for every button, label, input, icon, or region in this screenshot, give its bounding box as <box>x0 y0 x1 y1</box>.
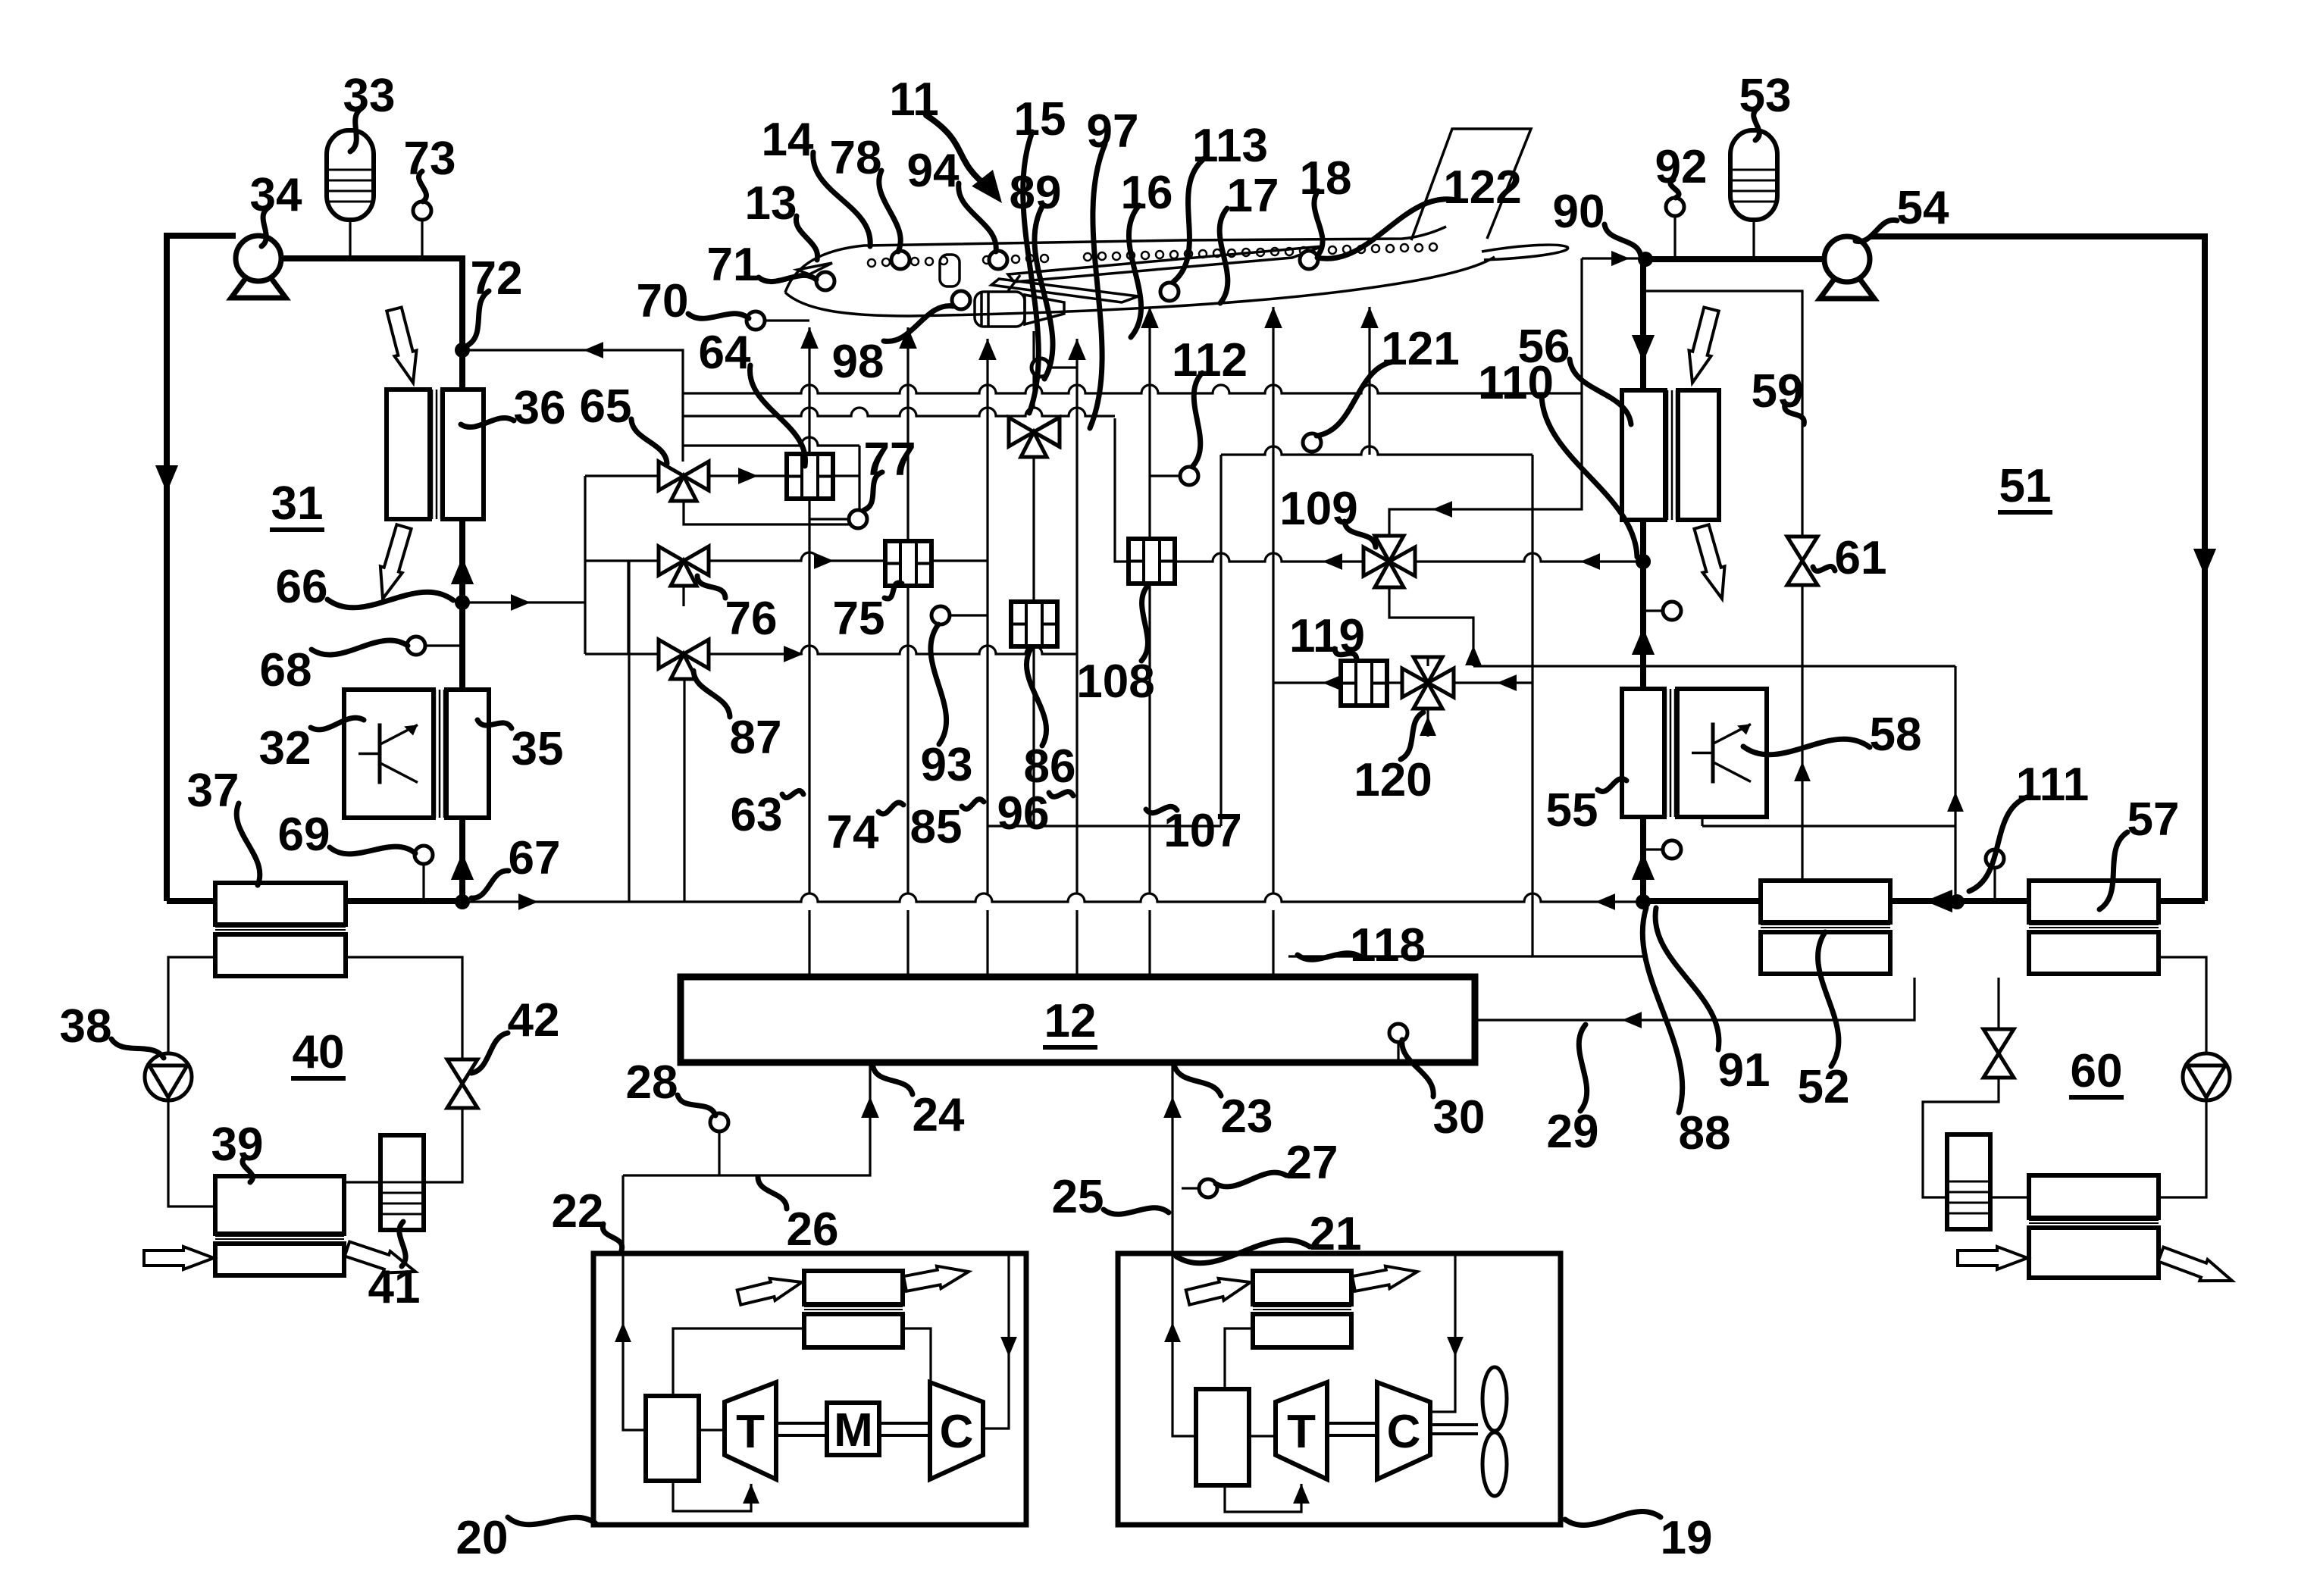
HX 55 with electric heater block 58 <box>1677 689 1767 817</box>
svg-text:32: 32 <box>259 722 312 775</box>
shaft T-C upper <box>1327 1422 1377 1425</box>
svg-text:14: 14 <box>762 114 814 166</box>
arrowhead of leader 11 <box>972 170 1002 203</box>
leader for label 67 <box>471 871 509 898</box>
leader for label 93 <box>931 624 947 744</box>
sensor 69 <box>415 846 433 864</box>
svg-text:28: 28 <box>626 1056 678 1109</box>
heat exchanger 36 <box>387 390 430 519</box>
flow arrow left into valve 120 <box>1497 674 1517 691</box>
line 107 lower <box>1148 910 1151 977</box>
turbine T in box 19 <box>1276 1382 1327 1479</box>
compressor 19 inlet from box top <box>1432 1253 1455 1412</box>
sensor 111 stem <box>1993 868 1996 901</box>
line 85 arrow into aircraft <box>978 339 997 360</box>
line from node 72 stepping down <box>462 350 683 462</box>
leader for label 28 <box>678 1095 715 1116</box>
accumulator 53 <box>1730 130 1777 220</box>
svg-text:26: 26 <box>787 1203 839 1256</box>
sensor 93 <box>931 606 950 624</box>
svg-text:120: 120 <box>1354 754 1432 806</box>
heat exchanger 64 <box>787 454 833 499</box>
svg-text:37: 37 <box>187 765 240 817</box>
leader for label 25 <box>1104 1208 1169 1215</box>
HX 119 to valve 120 <box>1387 681 1403 684</box>
pump 34 <box>231 277 286 298</box>
leader for label 77 <box>864 472 882 510</box>
leader for label 70 <box>688 314 749 319</box>
leader for label 23 <box>1175 1067 1221 1096</box>
sensor 93 stub <box>950 614 988 616</box>
svg-text:91: 91 <box>1718 1044 1770 1097</box>
leader for label 42 <box>471 1033 508 1073</box>
leader for label 122 <box>1317 199 1457 259</box>
flow arrow into node 90 <box>1611 251 1630 266</box>
flow arrow left toward node 72 <box>584 342 603 358</box>
controller box 12 <box>681 977 1475 1062</box>
three-way valve 76 <box>659 546 684 575</box>
vertical link line <box>858 446 860 524</box>
sensor 97 <box>1032 358 1050 377</box>
leader for label 64 <box>750 365 805 466</box>
thin line into node 90 <box>1582 257 1643 259</box>
leader for label 96 <box>1049 792 1073 797</box>
sensor 73 stem <box>421 220 423 258</box>
svg-text:108: 108 <box>1076 656 1154 708</box>
loop 31 left and top-left thick pipe <box>167 236 236 901</box>
svg-text:39: 39 <box>211 1119 264 1171</box>
flow arrow down into compressor 20 <box>1000 1337 1017 1357</box>
leader for label 69 <box>330 847 415 854</box>
svg-text:77: 77 <box>864 433 916 486</box>
line into HX 119 <box>1273 681 1341 684</box>
sensor 27 <box>1199 1179 1217 1197</box>
engine bleed line mid <box>1032 457 1035 602</box>
accumulator 41 <box>380 1135 424 1230</box>
leader for label 33 <box>350 108 362 152</box>
leader for label 90 <box>1605 224 1641 256</box>
svg-text:72: 72 <box>471 252 523 305</box>
svg-text:76: 76 <box>725 593 778 645</box>
loop 51 thick pipe block 55 to node 88 <box>1640 814 1646 902</box>
svg-text:63: 63 <box>731 789 783 841</box>
accumulator 33 stem <box>349 220 351 258</box>
svg-text:16: 16 <box>1121 167 1173 219</box>
leader for label 55 <box>1598 779 1626 792</box>
flow arrow right from node 66 <box>511 594 531 611</box>
shaft T-C lower <box>1327 1434 1377 1437</box>
expansion valve 61 <box>1787 537 1817 561</box>
svg-text:67: 67 <box>509 832 561 884</box>
sensor 68 stub <box>424 644 462 646</box>
sensor 92 <box>1666 198 1684 216</box>
wire combustor to turbine 19 <box>1249 1435 1276 1437</box>
line 110 horizontal <box>1473 665 1955 667</box>
sensor 77 stub <box>809 518 849 520</box>
leader for label 59 <box>1785 404 1805 424</box>
leader for label 53 <box>1754 108 1760 140</box>
svg-text:19: 19 <box>1661 1512 1713 1564</box>
line 107 upper <box>1148 307 1151 539</box>
rung to valve 65 <box>585 474 659 477</box>
line 63 lower <box>808 910 810 977</box>
svg-text:66: 66 <box>276 561 328 613</box>
svg-text:30: 30 <box>1433 1091 1486 1144</box>
loop 51 bottom thick pipe through HX 52 and HX 57 <box>1643 898 2205 904</box>
leader for label 120 <box>1401 712 1423 759</box>
leader for label 111 <box>1969 797 2027 891</box>
leader for label 63 <box>782 790 803 797</box>
svg-text:T: T <box>1287 1406 1316 1458</box>
vertical line x=2087 upper <box>1580 258 1583 393</box>
aircraft 11 silhouette <box>785 129 1568 327</box>
flow arrow down on loop 31 left pipe <box>155 465 178 493</box>
svg-text:34: 34 <box>250 169 302 221</box>
leader for label 91 <box>1655 908 1719 1050</box>
svg-text:29: 29 <box>1547 1106 1599 1158</box>
svg-text:69: 69 <box>278 809 330 861</box>
shaft T-M upper <box>776 1422 827 1425</box>
svg-text:53: 53 <box>1739 70 1792 122</box>
leader for label 17 <box>1219 208 1228 303</box>
flow arrow on valve 87 outlet <box>784 646 803 662</box>
expansion valve in loop 60 <box>1983 1029 2014 1053</box>
leader for label 113 <box>1173 158 1204 282</box>
svg-text:55: 55 <box>1546 784 1598 837</box>
leader for label 13 <box>796 216 817 260</box>
heat exchanger 57 <box>2029 881 2159 922</box>
svg-text:92: 92 <box>1655 141 1708 193</box>
mesh line from node 72 branch <box>683 385 1582 393</box>
line 22 into engine box 20 <box>623 1175 647 1430</box>
svg-text:T: T <box>736 1406 765 1458</box>
air arrow out of fan HX 19 <box>1352 1266 1417 1291</box>
shaft T-M lower <box>776 1434 827 1437</box>
leader for label 72 <box>468 291 489 345</box>
svg-text:70: 70 <box>637 275 689 327</box>
air arrow into loop 60 HX <box>1958 1247 2027 1269</box>
svg-text:111: 111 <box>2016 759 2090 811</box>
heat exchanger 56 <box>1622 390 1665 520</box>
sensor 121 stub <box>1310 452 1313 455</box>
ambient air arrow out of HX 36 <box>380 524 412 599</box>
HX 64 outlet <box>833 474 859 477</box>
line 29 from box 12 to HX 52 <box>1475 978 1914 1020</box>
leader for label 121 <box>1316 361 1395 436</box>
wire to turbine inlet <box>673 1481 751 1511</box>
heat exchanger 75 <box>885 541 931 586</box>
node 67 <box>455 894 470 909</box>
svg-text:17: 17 <box>1227 170 1279 222</box>
node 66 <box>455 595 470 610</box>
four-way valve 109 <box>1363 547 1389 576</box>
leader for label 119 <box>1335 649 1357 659</box>
leader for label 61 <box>1813 566 1835 571</box>
valve 87 bottom line to bus <box>683 679 685 901</box>
line 74 mid <box>906 584 909 893</box>
svg-text:25: 25 <box>1052 1171 1104 1223</box>
leader for label 86 <box>1026 649 1046 746</box>
line 24/26 from box 12 <box>623 1063 870 1175</box>
flow arrow up line 22 <box>615 1322 631 1342</box>
loop 60 pipe pump to HX 57 <box>2159 957 2206 1053</box>
svg-text:21: 21 <box>1310 1208 1362 1260</box>
leader for label 56 <box>1570 359 1631 424</box>
leader for label 24 <box>873 1067 913 1094</box>
sensor 73 <box>413 202 431 220</box>
loop 40 pipe to pump 38 <box>168 957 215 1053</box>
svg-text:98: 98 <box>832 336 884 388</box>
sensor 111 <box>1986 850 2004 868</box>
flow arrow into turbine 20 <box>743 1484 759 1504</box>
engine bleed line lower <box>1032 646 1035 826</box>
svg-text:74: 74 <box>827 806 879 859</box>
wire combustor to turbine <box>699 1429 725 1431</box>
compressor inlet from box top <box>983 1253 1009 1429</box>
mesh line upper 2 <box>683 408 1115 416</box>
svg-text:65: 65 <box>580 380 632 433</box>
svg-text:M: M <box>834 1404 873 1457</box>
mesh line 112/121 horizontal <box>1221 446 1533 455</box>
valve 76 outlet to HX 75 <box>709 552 885 561</box>
line 63 arrow into aircraft <box>800 327 819 349</box>
leader for label 92 <box>1670 180 1679 198</box>
flow arrow 23 up into box 12 <box>1163 1097 1182 1118</box>
line 117 arrow into aircraft <box>1264 307 1282 328</box>
svg-text:38: 38 <box>60 1000 112 1053</box>
shaft M-C lower <box>879 1434 930 1437</box>
fan heat exchanger in box 19 <box>1253 1271 1351 1304</box>
line 118 horizontal <box>1288 955 1533 957</box>
sensor 97 stub <box>1050 366 1077 368</box>
air arrow out of loop 60 HX <box>2159 1247 2233 1281</box>
leader for label 88 <box>1642 908 1683 1113</box>
svg-text:13: 13 <box>745 177 797 230</box>
leader for label 98 <box>884 306 953 342</box>
valve 76 bottom stub <box>682 586 684 606</box>
sensor 112 <box>1180 467 1198 485</box>
leader for label 97 <box>1090 144 1105 428</box>
loop 40 pipe pump 38 to HX 39 <box>168 1100 215 1206</box>
svg-text:54: 54 <box>1897 182 1949 234</box>
mesh line lower right <box>1702 825 1955 827</box>
flow arrow left on bus <box>1595 893 1615 910</box>
leader for label 87 <box>693 671 730 717</box>
mesh line upper 3 <box>683 437 859 446</box>
leader for label 18 <box>1314 191 1323 254</box>
wire fan HX to compressor 20 <box>903 1328 931 1382</box>
three-way valve 87 <box>659 640 684 668</box>
line into HX 108 left <box>1115 418 1129 562</box>
flow arrow right on bus <box>518 893 538 910</box>
sensor 70 <box>747 311 765 330</box>
leader for label 54 <box>1855 220 1897 241</box>
sensor 78 on fuselage <box>891 251 909 269</box>
leader for label 15 <box>1023 132 1039 413</box>
sensor on loop 51 <box>1663 602 1681 620</box>
svg-text:31: 31 <box>271 477 324 530</box>
line through valve 109 to node <box>1173 553 1643 562</box>
loop 31 bottom thick pipe through HX 37 <box>167 898 462 904</box>
propeller <box>1482 1367 1507 1431</box>
engine bleed line upper <box>1032 331 1035 407</box>
motor M in box 20 <box>827 1403 879 1455</box>
pump 38 <box>145 1053 192 1100</box>
line 59 upper with dogleg <box>1643 291 1802 537</box>
svg-text:20: 20 <box>456 1512 509 1564</box>
svg-text:89: 89 <box>1010 167 1062 219</box>
loop 31 thick pipe HX36 to block 32 <box>459 519 465 690</box>
svg-text:57: 57 <box>2127 793 2180 846</box>
ram air arrow into HX 56 <box>1689 308 1719 383</box>
engine box 19 <box>1118 1253 1561 1525</box>
sensor 70 stub <box>765 319 809 321</box>
accumulator 33 <box>327 130 374 220</box>
svg-text:27: 27 <box>1286 1137 1338 1189</box>
valve 120 bottom stub <box>1426 709 1429 737</box>
svg-text:64: 64 <box>699 327 751 379</box>
line 59 lower to HX 52 <box>1801 585 1803 881</box>
combustor box in 19 <box>1196 1389 1249 1485</box>
leader for label 16 <box>1129 205 1141 337</box>
pump in loop 60 <box>2183 1053 2230 1100</box>
manifold rail <box>584 476 586 654</box>
loop 51 thick pipe HX56 to block 55 <box>1640 518 1646 689</box>
svg-text:C: C <box>1387 1406 1421 1458</box>
valve 65 outlet to HX 64 <box>709 474 787 477</box>
leader for label 39 <box>243 1157 252 1182</box>
leader for label 75 <box>884 583 902 599</box>
sensor near node 88 <box>1663 840 1681 859</box>
air arrow into fan HX 19 <box>1186 1278 1251 1305</box>
line 23/25/21 from box 12 into engine box 19 <box>1172 1063 1196 1436</box>
svg-text:59: 59 <box>1752 365 1804 418</box>
line 117 upper <box>1272 307 1274 893</box>
svg-text:112: 112 <box>1172 334 1248 386</box>
line 112 vertical <box>1219 455 1222 826</box>
sensor 68 <box>407 637 425 655</box>
valve 109 bottom branch <box>1389 587 1473 666</box>
svg-text:94: 94 <box>907 145 960 197</box>
line 96 arrow into aircraft <box>1068 339 1086 360</box>
svg-text:86: 86 <box>1024 740 1076 793</box>
compressor C in box 20 <box>930 1382 983 1479</box>
leader for label 29 <box>1579 1025 1586 1111</box>
loop 60 pipe valve to accumulator <box>1923 1078 1999 1197</box>
loop 60 pipe HX to pump <box>2159 1100 2206 1197</box>
svg-text:35: 35 <box>512 723 564 775</box>
svg-text:88: 88 <box>1679 1107 1731 1159</box>
line 74 arrow into aircraft <box>899 327 917 349</box>
propeller shaft upper <box>1430 1423 1478 1426</box>
svg-text:87: 87 <box>730 712 782 764</box>
sensor 77 <box>849 510 867 528</box>
rung to valve 87 <box>585 652 659 655</box>
loop 31 top pipe from pump 34 to corner, down to HX 36 <box>281 258 462 390</box>
expansion valve 42 <box>447 1059 477 1084</box>
loop 60 pipe accumulator to HX <box>1990 1196 2029 1198</box>
wire valve 42 up to HX 37 <box>346 957 462 1059</box>
flow arrow down on loop 51 pipe above HX 56 <box>1632 335 1655 362</box>
leader for label 108 <box>1141 585 1148 661</box>
leader for label 22 <box>603 1224 621 1250</box>
air arrow into HX 39 <box>144 1247 214 1269</box>
svg-text:18: 18 <box>1300 152 1352 205</box>
svg-text:40: 40 <box>293 1026 345 1078</box>
leader for label 76 <box>697 576 725 598</box>
flow arrow left into HX 108 <box>1323 553 1342 570</box>
flow arrow left on line 29 <box>1622 1012 1642 1028</box>
svg-text:122: 122 <box>1443 161 1521 214</box>
svg-text:42: 42 <box>508 994 560 1047</box>
wire to turbine 19 inlet <box>1225 1484 1301 1512</box>
line 74 upper <box>906 327 909 544</box>
line 116 <box>1368 307 1370 455</box>
propeller shaft lower <box>1430 1432 1478 1435</box>
leader for label 89 <box>1035 205 1053 379</box>
flow arrow into HX 64 <box>738 468 758 484</box>
power unit box 20 <box>593 1253 1026 1525</box>
leader for label 74 <box>878 803 903 814</box>
sensor 113 on wing <box>1160 283 1179 301</box>
node 88 <box>1636 894 1651 909</box>
line 63 mid <box>808 499 810 893</box>
valve 87 outlet line <box>709 646 1077 654</box>
leader for label 41 <box>399 1222 405 1266</box>
leader for label 58 <box>1743 739 1870 755</box>
svg-text:85: 85 <box>910 801 963 853</box>
wire HX39 to accumulator 41 <box>344 1181 380 1183</box>
svg-text:60: 60 <box>2071 1045 2123 1097</box>
flow arrow up on branch <box>1465 646 1482 665</box>
svg-text:23: 23 <box>1221 1091 1273 1143</box>
leader for label 34 <box>261 208 268 246</box>
wire fan HX to combustor 19 <box>1225 1328 1253 1389</box>
shaft M-C upper <box>879 1422 930 1425</box>
leader for label 73 <box>418 171 426 202</box>
leader for label 14 <box>813 152 870 246</box>
svg-text:56: 56 <box>1518 321 1570 373</box>
leader for label 110 <box>1542 396 1637 557</box>
line down to node near HX 52 <box>1954 666 1956 902</box>
wire stub <box>803 1327 805 1329</box>
svg-text:58: 58 <box>1870 709 1922 761</box>
loop 51 top pipe from pump 54 to node 90, down to HX 56 <box>1643 259 1824 390</box>
line 118 vertical branch <box>1533 455 1643 956</box>
svg-text:121: 121 <box>1381 323 1459 375</box>
leader for label 38 <box>111 1039 164 1058</box>
heat exchanger 37 <box>215 883 346 925</box>
valve 89 side port <box>1034 418 1060 446</box>
fan heat exchanger in box 20 <box>804 1271 903 1304</box>
leader for label 94 <box>959 183 997 252</box>
svg-text:12: 12 <box>1044 995 1097 1047</box>
sensor 121 <box>1303 433 1321 452</box>
svg-text:61: 61 <box>1835 532 1887 584</box>
leader for label 107 <box>1146 806 1177 812</box>
mesh line lower join <box>988 825 1221 827</box>
svg-text:C: C <box>940 1406 974 1458</box>
line 85 lower <box>986 910 988 977</box>
ambient air arrow into HX 36 <box>387 308 416 383</box>
wire accumulator 41 to valve 42 <box>424 1108 462 1182</box>
leader for label 52 <box>1818 932 1839 1066</box>
line 63 vertical at x=830 <box>628 561 630 902</box>
leader for label 68 <box>312 640 408 655</box>
sensor stub <box>1643 848 1663 850</box>
heat exchanger 39 <box>215 1176 344 1234</box>
aircraft cabin windows <box>868 259 875 267</box>
